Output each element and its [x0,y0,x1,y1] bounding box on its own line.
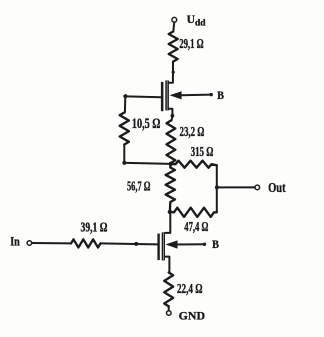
transistor M1 channel bar [165,81,169,111]
svg-text:B: B [217,89,224,102]
svg-text:GND: GND [179,309,205,323]
junction M1 source [171,114,175,118]
resistor R5 56,7 [166,164,175,212]
svg-text:In: In [10,235,20,249]
resistor R4 315 [171,161,217,168]
svg-text:29,1 Ω: 29,1 Ω [179,36,204,51]
junction gate corner [123,94,127,98]
wire R1 to M1 drain [169,62,173,83]
junction Out tap [215,185,219,189]
resistor R6 47,4 [170,208,217,217]
svg-text:39,1 Ω: 39,1 Ω [81,220,108,235]
svg-text:23,2 Ω: 23,2 Ω [180,124,205,139]
resistor R7 39,1 [71,239,101,247]
svg-text:22,4 Ω: 22,4 Ω [177,281,203,296]
node M junction [169,162,173,166]
terminal Out [255,185,260,190]
wire Udd to R1 [172,22,175,31]
wire bulk M1 to B [181,94,210,97]
svg-text:10,5 Ω: 10,5 Ω [132,116,161,132]
wire node N to M2 drain [165,212,170,233]
resistor R1 29,1 [169,32,178,62]
node B (top) [210,93,213,96]
transistor M2 bulk arrow [165,240,177,248]
terminal GND [167,311,172,316]
svg-text:Udd: Udd [187,13,207,29]
svg-text:B: B [212,238,219,251]
wire right rail [216,165,218,212]
transistor M1 bulk arrow [170,91,182,99]
resistor R2 10,5 [120,113,129,145]
wire M1 gate to corner [125,96,161,112]
wire M1 source [169,109,173,121]
wire M2 source [165,257,169,273]
junction on In line [134,242,138,246]
wire to Out [217,186,255,188]
node N junction [168,210,172,214]
wire R7 to In [32,242,71,244]
transistor M1 gate bar [161,82,164,111]
wire R8 to GND [168,306,170,310]
transistor M2 channel bar [162,232,165,260]
svg-text:315 Ω: 315 Ω [191,144,214,159]
wire bulk M2 to B [177,243,204,245]
transistor M2 gate bar [157,234,159,261]
terminal Udd [172,17,177,22]
terminal In [27,241,32,246]
junction on drain wire [172,71,175,74]
svg-text:56,7 Ω: 56,7 Ω [127,178,150,193]
resistor R3 23,2 [167,121,176,164]
resistor R8 22,4 [164,273,173,307]
node B (bottom) [203,243,206,246]
junction R2 bottom [122,161,126,165]
svg-text:47,4 Ω: 47,4 Ω [184,219,208,234]
wire R2 to bottom rail [124,145,170,164]
wire M2 gate to R7 [101,243,158,244]
svg-text:Out: Out [268,180,286,195]
